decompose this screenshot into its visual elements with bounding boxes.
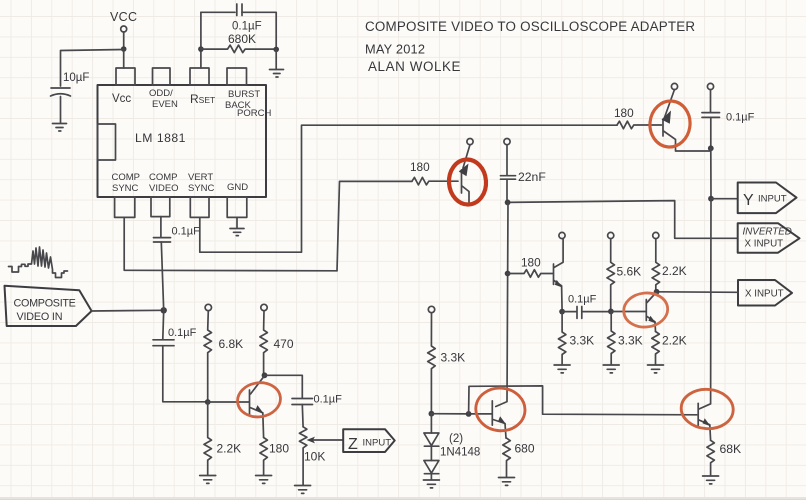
svg-text:0.1µF: 0.1µF xyxy=(232,21,262,33)
pin box VERT SYNC (bottom) xyxy=(190,197,209,217)
node Q1 collector / cap junction xyxy=(708,145,714,151)
svg-text:68K: 68K xyxy=(720,442,742,456)
wire comp sync up to 180 xyxy=(337,181,412,270)
Z INPUT tag xyxy=(343,429,395,452)
node Q5 emitter junction xyxy=(559,309,565,315)
resistor 2.2K (Q3 base) xyxy=(204,402,212,475)
resistor 180 (comp sync) xyxy=(412,177,458,185)
wire top to cap 0.1uF xyxy=(201,11,235,13)
resistor 3.3K (diode clamp) with terminal xyxy=(428,306,434,312)
highlight circle Q6 xyxy=(622,291,669,329)
svg-text:5.6K: 5.6K xyxy=(617,265,642,279)
resistor 180 (vert sync) xyxy=(617,121,662,129)
svg-text:ODD/: ODD/ xyxy=(149,88,173,99)
svg-text:10K: 10K xyxy=(304,450,325,464)
highlight circle Q1 xyxy=(648,99,693,149)
svg-text:680: 680 xyxy=(515,442,535,456)
wire junction to Q6 base xyxy=(611,311,646,313)
svg-text:INVERTED: INVERTED xyxy=(743,227,792,238)
video waveform sketch xyxy=(9,247,68,278)
svg-text:180: 180 xyxy=(614,106,634,120)
svg-text:3.3K: 3.3K xyxy=(618,334,643,348)
resistor 2.2K (Q6 collector) with terminal xyxy=(653,232,659,238)
resistor 680 (Q4 emitter) xyxy=(503,438,511,477)
node X output junction xyxy=(654,289,660,295)
capacitor 0.1uF (RSET) xyxy=(237,4,242,16)
highlight circle Q2 xyxy=(447,158,487,205)
terminal (Q1 emitter) xyxy=(671,83,677,89)
svg-text:PORCH: PORCH xyxy=(237,108,271,119)
wire base bypass to Q7 xyxy=(469,386,697,415)
ground (Q3 emitter) xyxy=(256,476,272,484)
resistor 180 (Q5 base) xyxy=(508,270,553,278)
ground (10K pot) xyxy=(295,486,311,494)
node RSET junction xyxy=(198,46,204,52)
svg-text:RSET: RSET xyxy=(190,92,215,106)
svg-text:180: 180 xyxy=(269,442,289,456)
svg-text:INPUT: INPUT xyxy=(758,194,787,205)
wire 22nF junction to inverted-x xyxy=(508,201,738,239)
capacitor 0.1uF (Z) xyxy=(292,399,313,405)
svg-text:VIDEO IN: VIDEO IN xyxy=(17,311,63,323)
wire down collector line to Q7 xyxy=(710,199,712,404)
wire cap down to base rail xyxy=(163,346,208,402)
wire junction to Q3 base xyxy=(208,401,249,403)
wire cap to video node xyxy=(161,242,163,310)
wire diode node to Q4 base xyxy=(431,413,492,415)
svg-text:VCC: VCC xyxy=(110,10,137,24)
wire GND pin to ground xyxy=(236,217,238,228)
wire cap to pot xyxy=(301,405,304,427)
node Q5 base network junction xyxy=(505,271,511,277)
svg-text:680K: 680K xyxy=(228,32,256,46)
svg-text:X INPUT: X INPUT xyxy=(745,289,784,300)
pin label COMP SYNC xyxy=(112,172,141,194)
node diode junction xyxy=(429,411,435,417)
svg-text:VIDEO: VIDEO xyxy=(149,183,179,194)
svg-text:ALAN WOLKE: ALAN WOLKE xyxy=(368,59,461,74)
wire junction down to Y node xyxy=(710,148,712,198)
IC pin1 notch xyxy=(98,124,116,160)
resistor 680K xyxy=(201,45,276,53)
diode D2 1N4148 xyxy=(430,446,432,460)
wire to Y INPUT tag xyxy=(711,198,738,200)
capacitor C 10uF xyxy=(51,88,71,96)
ground (Q6 emitter) xyxy=(648,365,664,373)
svg-text:MAY 2012: MAY 2012 xyxy=(365,42,425,57)
22nF capacitor xyxy=(504,139,510,145)
pin box RSET (top pin 3) xyxy=(190,68,209,85)
wire junction to ground xyxy=(275,49,277,69)
ground (10uF) xyxy=(53,124,67,132)
capacitor 0.1uF (Q5-Q6 coupling) xyxy=(562,311,576,313)
pin box VCC (top pin 1) xyxy=(116,68,135,85)
node Y input junction xyxy=(708,196,714,202)
pin label COMP VIDEO xyxy=(149,172,179,194)
svg-text:0.1µF: 0.1µF xyxy=(168,327,197,339)
transistor Q1 (PNP, circled) xyxy=(663,90,711,152)
wire tag to video node xyxy=(92,309,164,312)
wire junction to VCC pin xyxy=(123,49,125,68)
potentiometer 10K xyxy=(299,427,307,485)
svg-text:0.1µF: 0.1µF xyxy=(568,294,597,306)
svg-text:6.8K: 6.8K xyxy=(219,337,244,351)
COMPOSITE VIDEO IN tag xyxy=(5,286,92,326)
svg-text:0.1µF: 0.1µF xyxy=(172,226,201,238)
INVERTED X INPUT tag xyxy=(738,223,800,253)
svg-text:470: 470 xyxy=(274,337,294,351)
wire COMP SYNC pin down and right xyxy=(124,217,337,270)
VCC terminal xyxy=(121,26,127,32)
svg-text:Y: Y xyxy=(743,192,754,209)
wire RSET pin up xyxy=(200,12,202,68)
LM1881 IC body U1 xyxy=(98,85,267,197)
svg-text:INPUT: INPUT xyxy=(363,438,392,449)
node 470/Q3 collector junction xyxy=(262,372,268,378)
svg-text:BURST: BURST xyxy=(228,89,260,100)
terminal (Q2 emitter) xyxy=(467,139,473,145)
svg-text:COMP: COMP xyxy=(149,172,178,183)
svg-text:3.3K: 3.3K xyxy=(441,351,466,365)
wire X node to X INPUT tag xyxy=(657,291,738,294)
ground (Q7 emitter) xyxy=(703,476,719,484)
svg-text:GND: GND xyxy=(227,182,248,193)
ground (diodes) xyxy=(423,480,439,488)
pin box BURST (top pin 4) xyxy=(227,68,247,85)
node 680K right junction xyxy=(273,47,279,53)
capacitor 0.1uF (input coupling) xyxy=(153,340,174,346)
ground (Q4 emitter) xyxy=(499,478,515,486)
pin box ODD/EVEN (top pin 2) xyxy=(153,68,171,85)
wire VERT SYNC pin down right and up xyxy=(200,125,617,252)
svg-text:2.2K: 2.2K xyxy=(662,334,687,348)
svg-text:VERT: VERT xyxy=(188,172,213,183)
svg-text:LM 1881: LM 1881 xyxy=(135,131,186,145)
Y INPUT tag xyxy=(738,183,797,214)
diode D1 1N4148 xyxy=(430,414,432,433)
svg-text:X INPUT: X INPUT xyxy=(745,239,784,250)
pot wiper arrow xyxy=(312,439,343,441)
highlight circle Q3 xyxy=(235,380,282,420)
svg-text:SYNC: SYNC xyxy=(188,183,215,194)
resistor 470 with terminal xyxy=(261,304,267,310)
wire VCC terminal to junction xyxy=(123,32,125,49)
transistor Q7 (NPN, circled) xyxy=(698,403,710,440)
node composite video junction xyxy=(161,307,167,313)
svg-text:22nF: 22nF xyxy=(518,170,546,184)
capacitor 0.1uF (top right) xyxy=(707,83,713,89)
wire 470 junction to Z network xyxy=(265,375,303,398)
ground (Q6 base divider) xyxy=(603,365,619,373)
svg-text:2.2K: 2.2K xyxy=(662,264,687,278)
transistor Q3 (NPN, circled) xyxy=(250,376,265,438)
wire 10uF to ground xyxy=(60,97,62,124)
svg-text:3.3K: 3.3K xyxy=(570,334,595,348)
resistor 3.3K (Q6 base) xyxy=(608,312,616,365)
resistor 2.2K (Q6 emitter) xyxy=(652,332,660,365)
ground (IC GND pin) xyxy=(230,229,244,236)
transistor Q5 (NPN) xyxy=(554,239,564,312)
pin label BURST BACK PORCH xyxy=(225,89,271,119)
highlight circle Q7 xyxy=(680,388,735,431)
transistor Q6 (NPN, circled) xyxy=(646,292,656,332)
svg-text:2.2K: 2.2K xyxy=(217,442,242,456)
pin label ODD/EVEN xyxy=(149,88,178,110)
pin box GND (bottom) xyxy=(227,197,247,217)
svg-text:COMPOSITE: COMPOSITE xyxy=(14,298,76,310)
svg-text:Z: Z xyxy=(348,436,358,453)
svg-text:COMP: COMP xyxy=(112,172,141,183)
resistor 5.6K with terminal xyxy=(608,232,614,238)
pin box COMP SYNC (bottom) xyxy=(115,197,135,217)
svg-text:180: 180 xyxy=(521,256,541,270)
terminal (Q5 collector) xyxy=(559,232,565,238)
resistor 68K (Q7 emitter) xyxy=(707,440,715,475)
bottom scan shadow xyxy=(0,497,806,500)
svg-text:180: 180 xyxy=(410,160,430,174)
svg-text:0.1µF: 0.1µF xyxy=(726,112,755,124)
pin label VERT SYNC xyxy=(188,172,215,194)
svg-text:10µF: 10µF xyxy=(63,72,89,84)
ground (2.2K) xyxy=(200,476,216,484)
node Q4 base junction xyxy=(466,411,472,417)
svg-text:(2): (2) xyxy=(449,433,463,445)
X INPUT tag xyxy=(738,280,792,306)
node VCC junction xyxy=(121,46,127,52)
resistor 3.3K (Q5 emitter) xyxy=(558,312,566,365)
transistor Q4 (NPN, circled) xyxy=(492,202,508,438)
svg-text:1N4148: 1N4148 xyxy=(440,447,480,459)
wire cap to right corner xyxy=(242,12,276,49)
resistor 6.8K with terminal xyxy=(205,304,211,310)
wire junction to 10uF xyxy=(61,50,124,87)
svg-text:COMPOSITE VIDEO TO OSCILLOSCOP: COMPOSITE VIDEO TO OSCILLOSCOPE ADAPTER xyxy=(365,19,695,34)
svg-text:EVEN: EVEN xyxy=(152,99,178,110)
svg-text:Vcc: Vcc xyxy=(112,93,131,105)
title text xyxy=(365,19,695,74)
transistor Q2 (PNP, circled) xyxy=(462,145,471,203)
wire video node down to coupling cap xyxy=(162,310,165,339)
pin box COMP VIDEO (bottom) xyxy=(151,197,170,217)
node Q6 base junction xyxy=(608,309,614,315)
node base junction (Q3) xyxy=(205,399,211,405)
highlight circle Q4 xyxy=(474,386,527,433)
capacitor 0.1uF (comp video) xyxy=(154,238,171,242)
wire COMP VIDEO pin to cap xyxy=(160,217,162,237)
ground (Q5 emitter) xyxy=(554,365,570,373)
node 22nF bottom junction xyxy=(505,200,511,206)
svg-text:0.1µF: 0.1µF xyxy=(314,394,343,406)
resistor 180 (Q3 emitter) xyxy=(260,438,268,476)
svg-text:SYNC: SYNC xyxy=(112,183,139,194)
ground (RSET network) xyxy=(270,70,284,78)
